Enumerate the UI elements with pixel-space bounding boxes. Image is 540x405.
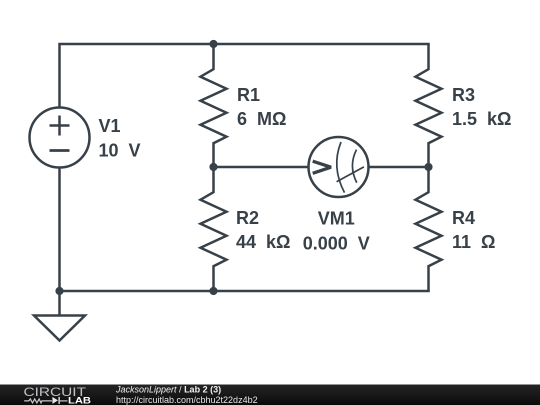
svg-text:10 V: 10 V	[99, 141, 141, 161]
svg-text:R3: R3	[452, 85, 475, 105]
svg-text:R4: R4	[452, 208, 475, 228]
svg-text:44 kΩ: 44 kΩ	[236, 232, 290, 252]
svg-text:0.000 V: 0.000 V	[303, 234, 370, 254]
svg-text:JacksonLippert / Lab 2 (3): JacksonLippert / Lab 2 (3)	[115, 385, 221, 395]
svg-text:http://circuitlab.com/cbhu2t22: http://circuitlab.com/cbhu2t22dz4b2	[116, 395, 258, 405]
svg-text:VM1: VM1	[318, 209, 355, 229]
svg-text:V1: V1	[99, 116, 121, 136]
svg-text:LAB: LAB	[68, 395, 91, 405]
svg-text:11 Ω: 11 Ω	[452, 232, 495, 252]
svg-text:6 MΩ: 6 MΩ	[237, 109, 286, 129]
svg-text:R1: R1	[237, 85, 260, 105]
svg-text:R2: R2	[236, 208, 259, 228]
svg-text:1.5 kΩ: 1.5 kΩ	[452, 109, 511, 129]
